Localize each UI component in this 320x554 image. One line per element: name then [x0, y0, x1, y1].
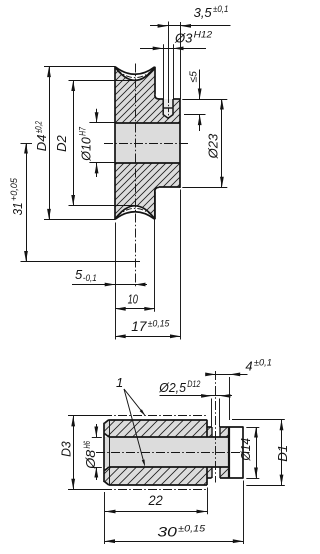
- dim 31 line: [26, 143, 28, 262]
- pulley cut material upper half (gray): [115, 67, 180, 122]
- svg-text:10: 10: [128, 291, 139, 306]
- bore Ø10 (gray): [115, 123, 180, 163]
- stem wall segment 3 (gray): [207, 467, 212, 478]
- hatching lower half: [115, 163, 180, 219]
- bore top edge: [109, 436, 229, 438]
- ext Ø14 bottom: [246, 478, 259, 480]
- step face upper: [206, 420, 208, 437]
- svg-text:D2: D2: [54, 135, 69, 152]
- dim Ø8 upper line: [96, 424, 98, 437]
- leader 1 line b: [124, 389, 144, 464]
- chamfer bottom-left outer: [105, 482, 109, 486]
- D3 reference line bottom (dash-dot): [103, 489, 208, 491]
- axle hatching lower: [105, 467, 208, 485]
- ext D3 bottom: [68, 489, 104, 491]
- stem wall hatching 2: [220, 427, 229, 437]
- axle hatching upper: [105, 420, 208, 437]
- bore bottom edge: [109, 466, 229, 468]
- dim D4 line: [49, 67, 51, 220]
- dim D2 line: [73, 81, 75, 206]
- cross hole centerline: [215, 371, 217, 483]
- dim Ø10 lower line: [96, 163, 98, 177]
- hub bottom face: [159, 186, 181, 188]
- leader 1 arrow a: [140, 409, 146, 415]
- stem right face: [242, 427, 244, 479]
- dim Ø2,5 arrow right: [220, 394, 231, 398]
- dim Ø8 lower line: [96, 467, 98, 480]
- chamfer top-left bore: [105, 434, 109, 438]
- groove top inner arc: [115, 67, 155, 80]
- groove bottom inner arc: [115, 206, 155, 219]
- groove bottom pitch arc (dash-dot): [117, 208, 154, 216]
- bore end face: [228, 427, 230, 478]
- pulley cut material lower half (gray): [115, 163, 180, 219]
- dim Ø23 line: [221, 99, 223, 187]
- pulley axis centerline: [104, 143, 189, 145]
- dim 10 line: [115, 308, 155, 310]
- ext D1 bottom: [246, 485, 284, 487]
- axle body upper wall (gray): [105, 420, 208, 437]
- dim 3,5 arrow right: [181, 24, 192, 28]
- ext left face below: [115, 223, 117, 340]
- dim D1 line: [281, 420, 283, 485]
- stem wall hatching 1: [207, 427, 212, 437]
- dim Ø23 arrow down: [220, 177, 224, 188]
- step face lower: [206, 467, 208, 485]
- hub right ext top: [180, 22, 182, 99]
- ext left face below: [104, 492, 106, 544]
- stem wall segment 4 (gray): [220, 467, 229, 478]
- svg-text:D3: D3: [58, 441, 73, 457]
- dim ≤5 upper line: [199, 70, 201, 100]
- ext step below: [207, 488, 209, 515]
- dim 30 line: [105, 541, 244, 543]
- ext cross hole right: [219, 399, 221, 428]
- dim 17 arrow left: [115, 334, 126, 338]
- dim D4 arrow down: [47, 209, 51, 220]
- dim 10 arrow right: [144, 307, 155, 311]
- ext centerline left: [21, 143, 33, 145]
- stem bottom face: [207, 477, 212, 479]
- dim Ø8 arrow down: [94, 427, 98, 438]
- dim 22 line: [105, 511, 207, 513]
- dim 5 arrow right-pointing: [105, 283, 116, 287]
- dim D3 arrow up: [71, 416, 75, 427]
- ext Ø14 top: [246, 427, 259, 429]
- ext Ø10 bottom: [89, 162, 115, 164]
- axle axis centerline: [96, 452, 250, 454]
- ext hub right below: [180, 190, 182, 340]
- dim Ø10 upper line: [96, 109, 98, 123]
- dim 4 arrow right: [230, 373, 241, 377]
- hub bottom ext line right: [182, 187, 227, 189]
- axle left face: [103, 423, 105, 482]
- ext bore end: [229, 377, 231, 420]
- stem wall hatching 3: [207, 467, 212, 478]
- ext D4 bottom: [44, 219, 115, 221]
- hole inner dash: [164, 107, 173, 109]
- leader 1 line a: [124, 389, 145, 415]
- dim ≤5 lower line: [199, 115, 201, 131]
- dim 31 arrow down: [24, 251, 28, 262]
- cross hole wall left: [211, 427, 213, 437]
- dim 3,5 line: [150, 25, 231, 27]
- dim Ø10 arrow up: [95, 163, 99, 174]
- dim Ø2,5 line: [160, 395, 233, 397]
- chamfer bottom-left bore: [105, 467, 109, 471]
- dim 17 line: [115, 336, 180, 338]
- dim D2 arrow up: [71, 81, 75, 92]
- dim Ø14 arrow down: [254, 468, 258, 479]
- groove top pitch arc (dash-dot): [117, 69, 154, 77]
- dim D1 arrow up: [280, 420, 284, 431]
- hub right face: [179, 99, 181, 188]
- ext D2 bottom: [69, 205, 136, 207]
- chamfer top-left outer: [105, 420, 109, 424]
- ext flange right below: [154, 191, 156, 312]
- bore bottom edge: [115, 162, 180, 164]
- stem top face: [207, 426, 212, 428]
- dim 4 line: [208, 374, 248, 376]
- ext D4 top: [44, 66, 115, 68]
- svg-text:Ø23: Ø23: [205, 133, 220, 159]
- hole Ø3 centerline ext: [168, 22, 170, 100]
- axle body lower wall (gray): [105, 467, 208, 485]
- groove bottom outer arc: [115, 212, 155, 220]
- ext D3 top: [68, 415, 104, 417]
- ext D1 top: [232, 419, 285, 421]
- dim D1 arrow down: [280, 475, 284, 486]
- axle top face: [109, 419, 207, 421]
- ext right face below: [243, 481, 245, 545]
- ext Ø8 bottom: [92, 467, 102, 469]
- ext Ø10 top: [89, 122, 115, 124]
- dim 4 arrow left: [205, 373, 216, 377]
- cross hole wall right: [219, 427, 221, 437]
- dim Ø3 arrow left: [153, 47, 164, 51]
- hole bottom ext line: [184, 114, 206, 116]
- dim ≤5 arrow up: [198, 115, 202, 126]
- hole wall ext right: [173, 44, 175, 99]
- dim D4 arrow up: [47, 67, 51, 78]
- dim Ø10 arrow down: [95, 112, 99, 123]
- dim 31 arrow up: [24, 143, 28, 154]
- dim 22 arrow right: [197, 510, 208, 514]
- hatching upper half: [115, 67, 180, 122]
- svg-text:1: 1: [116, 375, 123, 390]
- ref line for 31: [21, 261, 141, 263]
- svg-text:≤5: ≤5: [189, 71, 200, 83]
- dim D2 arrow down: [71, 195, 75, 206]
- dim D3 line: [73, 416, 75, 489]
- bore Ø8 (gray): [105, 437, 230, 467]
- bore top edge: [115, 122, 180, 124]
- leader 1 arrow b: [142, 460, 145, 467]
- dim Ø3 line: [140, 48, 206, 50]
- dim Ø23 arrow up: [220, 99, 224, 110]
- axle bottom face: [109, 484, 207, 486]
- dim ≤5 arrow down: [198, 89, 202, 100]
- stem wall hatching 4: [220, 467, 229, 478]
- stem wall segment 1 (gray): [207, 427, 212, 437]
- dim 5 arrow left-pointing: [135, 283, 146, 287]
- dim Ø8 arrow up: [94, 467, 98, 478]
- hole Ø3 centerline: [168, 99, 170, 119]
- hub top ext line right: [182, 99, 227, 101]
- hole wall ext left: [163, 44, 165, 99]
- chamfer edge line: [109, 420, 111, 485]
- svg-text:22: 22: [148, 492, 163, 508]
- hole Ø3 (gray): [163, 99, 173, 118]
- dim 5 line: [72, 284, 147, 286]
- ext cross hole left: [211, 399, 213, 428]
- fillet flange-hub top: [155, 95, 159, 99]
- hub top face: [159, 98, 163, 100]
- dim Ø14 arrow up: [254, 427, 258, 438]
- dim Ø3 arrow right: [173, 47, 184, 51]
- dim D3 arrow down: [71, 479, 75, 490]
- flange right edge upper: [154, 67, 156, 95]
- dim 30 arrow right: [233, 539, 244, 543]
- hole Ø3 outline: [163, 99, 173, 118]
- flange right edge lower: [154, 192, 156, 220]
- ext D2 top: [69, 80, 136, 82]
- dim 22 arrow left: [105, 510, 116, 514]
- svg-text:D1: D1: [275, 445, 290, 462]
- D3 reference line top (dash-dot): [103, 415, 208, 417]
- pulley left face: [114, 66, 116, 219]
- dim Ø2,5 arrow left: [201, 394, 212, 398]
- fillet flange-hub bottom: [155, 187, 159, 191]
- groove top outer arc: [115, 67, 155, 75]
- ext Ø8 top: [92, 437, 102, 439]
- dim 30 arrow left: [105, 539, 116, 543]
- dim Ø14 line: [256, 427, 258, 478]
- stem wall segment 2 (gray): [220, 427, 229, 437]
- dim 17 arrow right: [170, 334, 181, 338]
- dim 10 arrow left: [115, 307, 126, 311]
- dim 3,5 arrow left: [158, 24, 169, 28]
- groove centerline: [135, 64, 137, 288]
- svg-text:Ø14: Ø14: [238, 438, 253, 462]
